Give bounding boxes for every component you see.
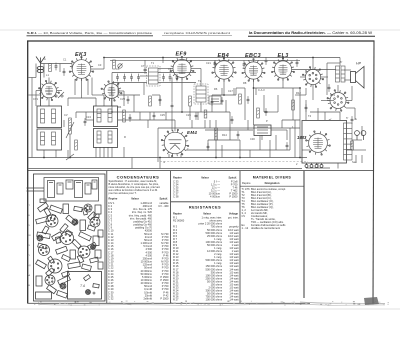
svg-text:Valeur: Valeur bbox=[203, 212, 211, 216]
frame top border bbox=[27, 40, 375, 42]
svg-text:CV1: CV1 bbox=[33, 97, 39, 101]
capacitor C31 bbox=[127, 96, 130, 104]
svg-text:P: P bbox=[266, 119, 268, 123]
capacitor C24 bbox=[328, 84, 331, 92]
antenna coil L1 bbox=[41, 109, 45, 123]
bottom-right corner smudge bbox=[364, 297, 379, 305]
svg-text:C 32: C 32 bbox=[108, 297, 114, 301]
resistor R11 bbox=[329, 119, 332, 120]
wave switch contacts bbox=[55, 95, 63, 97]
svg-text:R2 00000: R2 00000 bbox=[173, 219, 185, 223]
power transformer bbox=[344, 123, 353, 160]
capacitor C32 bbox=[171, 102, 174, 110]
capacitor C35 bbox=[237, 131, 240, 139]
resistor R5 bbox=[149, 96, 152, 106]
small component value labels bbox=[33, 57, 357, 166]
table divider vertical 4 bbox=[303, 171, 305, 298]
svg-text:1/4 watt: 1/4 watt bbox=[229, 298, 238, 302]
chassis tube sockets (top view) bbox=[37, 204, 100, 295]
dial assembly parts bbox=[48, 180, 98, 198]
svg-text:Repère: Repère bbox=[242, 181, 251, 185]
chassis edge labels bbox=[29, 205, 32, 287]
condensateurs intro paragraph bbox=[109, 179, 161, 195]
tube socket envelope bbox=[327, 90, 349, 112]
capacitor C25 bbox=[305, 104, 308, 112]
svg-text:C26: C26 bbox=[186, 113, 191, 117]
IF transformer T1 dashed enclosure bbox=[147, 66, 161, 86]
header right underline bbox=[248, 35, 375, 37]
svg-text:C21: C21 bbox=[206, 61, 211, 65]
svg-text:RESISTANCES: RESISTANCES bbox=[189, 206, 221, 210]
power supply enclosure bbox=[302, 121, 347, 164]
resistor R1 bbox=[49, 64, 52, 72]
svg-text:m: m bbox=[163, 161, 165, 164]
tube socket envelope bbox=[101, 81, 122, 101]
schematic/table divider rule bbox=[28, 170, 374, 172]
svg-text:CONDENSATEURS: CONDENSATEURS bbox=[117, 175, 160, 180]
svg-text:Valeur: Valeur bbox=[201, 175, 209, 179]
svg-text:R12: R12 bbox=[296, 91, 301, 95]
svg-text:S.R.I. — 10, Boulevard Volt: S.R.I. — 10, Boulevard Voltaire, Paris, … bbox=[27, 31, 152, 35]
RF coil pack box 2 bbox=[94, 129, 118, 148]
output transformer primary bbox=[336, 66, 340, 82]
resistor R9 bbox=[257, 108, 260, 118]
capacitor C34 bbox=[195, 112, 198, 120]
resistances column headers bbox=[173, 212, 239, 216]
capacitor C22 bbox=[286, 142, 289, 150]
tube socket envelope bbox=[306, 131, 331, 155]
svg-text:la Documentation du Radio-élec: la Documentation du Radio-électricien. —… bbox=[249, 31, 372, 35]
svg-text:Repère: Repère bbox=[173, 175, 182, 179]
chassis layout plan outer box bbox=[34, 174, 106, 301]
cond continuation headers bbox=[173, 175, 237, 179]
svg-text:P 1500: P 1500 bbox=[229, 195, 238, 199]
resistor R3 bbox=[75, 140, 78, 150]
resistances rows bbox=[173, 216, 239, 302]
svg-text:C3: C3 bbox=[98, 63, 102, 67]
faint page-bottom line bbox=[0, 308, 400, 310]
svg-text:C30: C30 bbox=[250, 137, 255, 141]
tube EM4 envelope bbox=[161, 129, 189, 157]
svg-text:R: R bbox=[124, 135, 126, 139]
pilot lamps bbox=[355, 131, 366, 140]
svg-text:100 000 ohms: 100 000 ohms bbox=[206, 298, 223, 302]
tube socket envelope bbox=[39, 80, 60, 100]
faint top scan line bbox=[0, 29, 400, 31]
capacitor C9 bbox=[162, 74, 165, 82]
rule under cond continuation bbox=[171, 201, 240, 203]
condensateurs column headers bbox=[109, 197, 169, 201]
capacitor C26 bbox=[214, 60, 217, 68]
capacitor C10 bbox=[169, 74, 172, 82]
capacitor C28 bbox=[265, 57, 268, 65]
svg-text:CV: CV bbox=[242, 214, 246, 218]
svg-text:pot. inter.: pot. inter. bbox=[228, 216, 239, 220]
svg-text:T A: T A bbox=[80, 284, 86, 288]
table divider vertical 2 bbox=[170, 171, 172, 303]
tube socket envelope bbox=[302, 67, 323, 88]
svg-text:R8: R8 bbox=[243, 81, 247, 85]
tube EB4 envelope bbox=[212, 58, 236, 82]
tuning shaft bbox=[27, 188, 45, 191]
antenna coil pack box bbox=[37, 106, 62, 128]
svg-text:pour les activées pour T.: pour les activées pour T. bbox=[109, 191, 137, 195]
svg-text:Spécif.: Spécif. bbox=[228, 175, 237, 179]
frame right border bbox=[373, 41, 374, 303]
header middle underline bbox=[162, 34, 232, 36]
svg-text:1 - 12: 1 - 12 bbox=[242, 226, 249, 230]
capacitor C16 bbox=[211, 98, 214, 106]
svg-text:Repère: Repère bbox=[109, 197, 118, 201]
bottom rule bbox=[28, 302, 310, 304]
svg-text:C9: C9 bbox=[168, 67, 172, 71]
svg-text:C.A.V.: C.A.V. bbox=[258, 88, 266, 92]
junction dots bbox=[43, 57, 314, 159]
svg-text:C25: C25 bbox=[160, 113, 165, 117]
svg-text:Tr: Tr bbox=[346, 116, 348, 120]
tube EL3 envelope bbox=[271, 58, 294, 81]
trimmer capacitor CT1 bbox=[118, 64, 123, 69]
table divider vertical 3 bbox=[239, 171, 241, 303]
condensateurs rows bbox=[108, 201, 169, 301]
dial assembly box bbox=[44, 178, 99, 202]
RF coil L8 bbox=[108, 131, 112, 143]
capacitor C20 bbox=[231, 116, 234, 124]
svg-text:Voltage: Voltage bbox=[229, 212, 239, 216]
materiel rows bbox=[242, 187, 287, 230]
bottom scan speckle dots bbox=[34, 301, 389, 306]
tube EF9 envelope bbox=[170, 56, 194, 80]
svg-text:EM4: EM4 bbox=[187, 130, 197, 135]
svg-text:R4: R4 bbox=[118, 105, 122, 109]
svg-text:Pr: Pr bbox=[305, 70, 308, 74]
svg-text:C1: C1 bbox=[63, 58, 67, 62]
capacitor C5 bbox=[116, 74, 119, 82]
RF coil L5 bbox=[97, 109, 101, 122]
chassis power transformer bbox=[68, 272, 102, 300]
svg-text:A: A bbox=[44, 57, 46, 61]
resistor R16 bbox=[113, 60, 116, 69]
frame left border bbox=[27, 41, 29, 304]
antenna bbox=[36, 57, 45, 107]
bottom scan speckle band bbox=[40, 302, 385, 306]
capacitor C13 bbox=[84, 118, 87, 126]
IF transformer T2 bbox=[196, 86, 206, 102]
IF transformer T1 bbox=[149, 68, 159, 84]
svg-text:EL3: EL3 bbox=[278, 53, 289, 59]
svg-text:C7: C7 bbox=[141, 64, 145, 68]
tube EK3 envelope bbox=[69, 56, 94, 81]
oscillator coil L3 bbox=[41, 132, 45, 145]
capacitor C21 bbox=[265, 108, 268, 116]
oscillator coil pack box bbox=[37, 129, 62, 150]
svg-text:HP2: HP2 bbox=[330, 93, 336, 97]
resistor R7 bbox=[239, 94, 242, 104]
svg-text:remplace CHASSIS précédent: remplace CHASSIS précédent bbox=[164, 31, 230, 35]
capacitor C7 bbox=[130, 74, 133, 82]
resistor R10 bbox=[292, 100, 295, 110]
detector load box bbox=[209, 96, 221, 104]
resistor R20 bbox=[351, 141, 354, 150]
loudspeaker HP bbox=[351, 62, 365, 89]
capacitor C29 bbox=[296, 59, 299, 67]
antenna coil L2 bbox=[52, 109, 56, 123]
capacitor C27 bbox=[243, 61, 246, 69]
svg-text:Spécif.: Spécif. bbox=[159, 197, 168, 201]
svg-text:2x8mfd: 2x8mfd bbox=[143, 297, 152, 301]
svg-text:Valeur: Valeur bbox=[131, 197, 139, 201]
resistor R8 bbox=[215, 128, 218, 140]
oscillator coil L4 bbox=[52, 132, 56, 145]
svg-text:HP: HP bbox=[356, 62, 362, 66]
svg-text:CV2: CV2 bbox=[120, 97, 126, 101]
svg-text:C5: C5 bbox=[116, 67, 120, 71]
svg-text:CV: CV bbox=[64, 113, 68, 117]
capacitor C8 bbox=[137, 74, 140, 82]
materiel headers bbox=[242, 181, 280, 185]
resistor R2 bbox=[69, 118, 72, 134]
mains terminal strip bbox=[305, 163, 323, 168]
capacitor C1 bbox=[55, 63, 58, 71]
svg-text:Repère: Repère bbox=[173, 212, 182, 216]
svg-text:Tr: Tr bbox=[340, 60, 342, 64]
table divider vertical 1 bbox=[106, 171, 108, 303]
chassis scattered components (resistors/capacitors) bbox=[36, 199, 103, 298]
IF transformer T2 dashed enclosure bbox=[194, 84, 208, 104]
capacitor C33 bbox=[153, 112, 156, 120]
svg-text:C17: C17 bbox=[228, 89, 233, 93]
capacitor C14 bbox=[129, 114, 132, 122]
capacitor C15 bbox=[159, 96, 162, 104]
svg-text:4 000cm: 4 000cm bbox=[210, 195, 220, 199]
RF coil L7 bbox=[97, 131, 101, 143]
svg-text:P 1500: P 1500 bbox=[160, 297, 169, 301]
resistor R4 bbox=[123, 110, 126, 122]
svg-text:EBC3: EBC3 bbox=[245, 53, 261, 59]
output transformer secondary bbox=[341, 66, 345, 82]
capacitor C18 bbox=[247, 96, 250, 104]
svg-text:C 38: C 38 bbox=[173, 195, 179, 199]
svg-text:CV - 460: CV - 460 bbox=[158, 204, 169, 208]
RF coil L6 bbox=[108, 109, 112, 122]
svg-text:R 27: R 27 bbox=[173, 298, 179, 302]
svg-text:R6: R6 bbox=[214, 87, 218, 91]
capacitor C17 bbox=[221, 97, 224, 105]
volume potentiometer box bbox=[254, 125, 271, 136]
svg-text:Sec: Sec bbox=[352, 160, 357, 164]
chassis filter choke bbox=[36, 292, 52, 299]
capacitor C11 bbox=[176, 74, 179, 82]
capacitor C23 bbox=[351, 116, 354, 124]
svg-text:MATERIEL DIVERS: MATERIEL DIVERS bbox=[253, 175, 292, 179]
cond continuation rows bbox=[173, 180, 238, 199]
rule under materiel headers bbox=[240, 185, 304, 187]
svg-text:Désignation: Désignation bbox=[265, 181, 280, 185]
dashed chassis line bbox=[160, 161, 308, 163]
resistor R6 bbox=[189, 96, 192, 106]
svg-text:R14: R14 bbox=[222, 133, 227, 137]
resistor R15 bbox=[204, 110, 207, 118]
wire mesh bbox=[29, 58, 367, 169]
capacitor C36 bbox=[63, 68, 66, 76]
capacitor C19 bbox=[207, 143, 210, 151]
svg-text:C13: C13 bbox=[86, 115, 91, 119]
capacitor C12 bbox=[144, 66, 147, 74]
svg-text:S: S bbox=[355, 117, 357, 121]
header left underline bbox=[27, 35, 154, 37]
capacitor C6 bbox=[123, 74, 126, 82]
tube EBC3 envelope bbox=[242, 59, 265, 82]
RF coil pack box bbox=[94, 106, 118, 127]
svg-text:douilles de raccordement: douilles de raccordement bbox=[251, 226, 280, 230]
